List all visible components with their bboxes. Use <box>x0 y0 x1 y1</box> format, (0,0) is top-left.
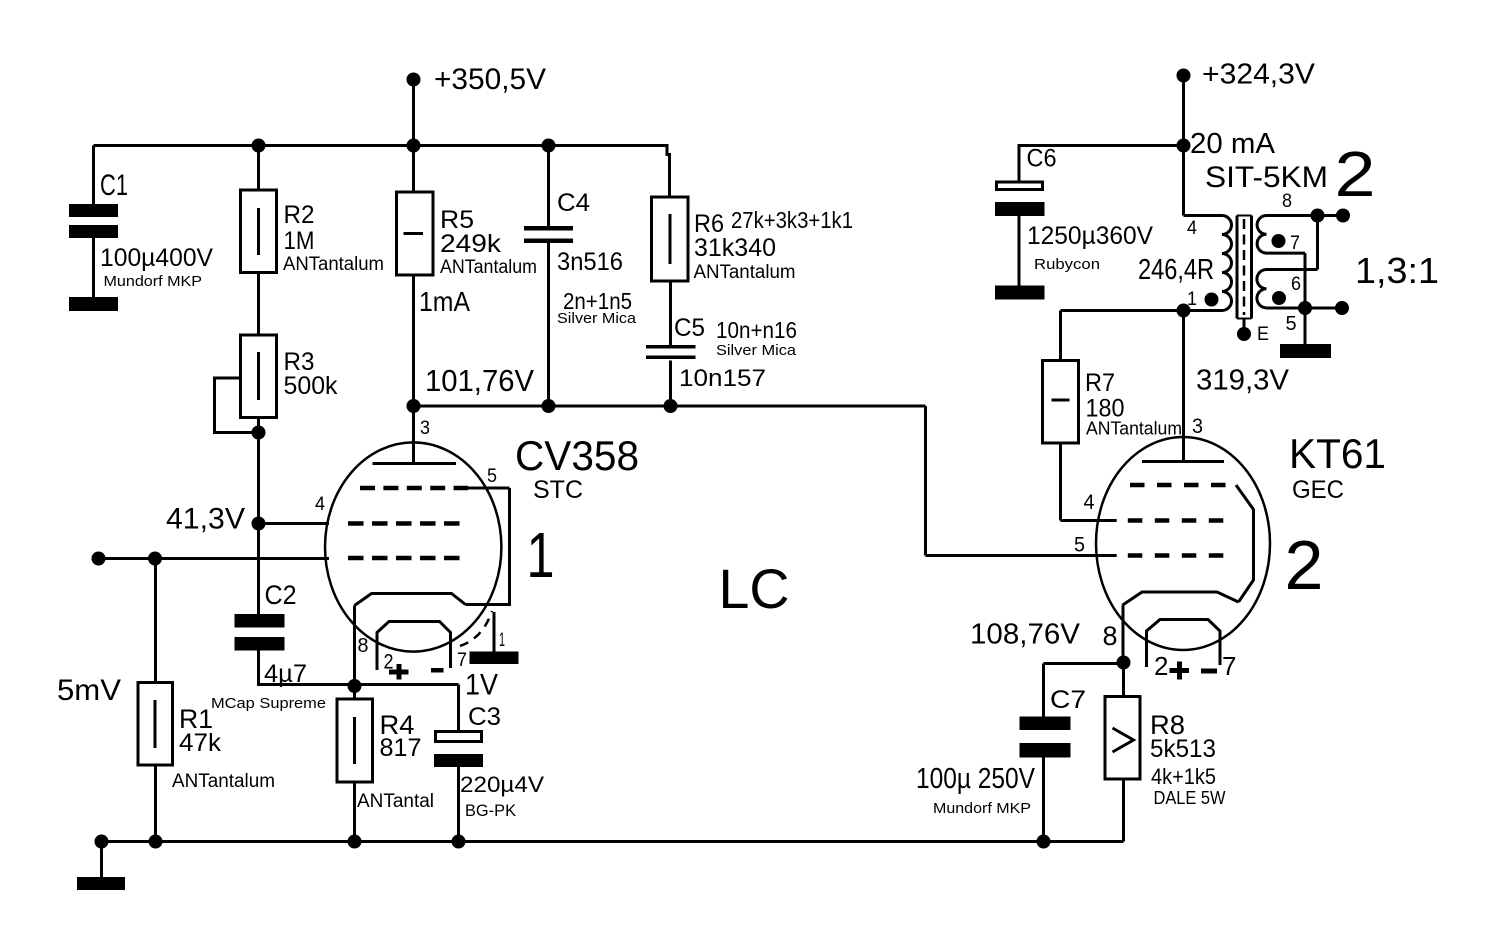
junction dot rail-R5 <box>407 139 421 153</box>
svg-text:Mundorf MKP: Mundorf MKP <box>104 273 203 290</box>
wire screen grid pin4 CV358 <box>259 522 330 525</box>
svg-text:6: 6 <box>1291 274 1301 295</box>
wire pin1 CV358 <box>493 612 496 652</box>
anode plate KT61 <box>1142 460 1224 463</box>
svg-text:LC: LC <box>719 557 790 620</box>
label 20 mA <box>1190 128 1276 160</box>
wire C6 bottom <box>1018 216 1021 286</box>
svg-text:5: 5 <box>487 466 497 487</box>
label R3 <box>284 348 315 376</box>
capacitor C6 <box>995 182 1045 216</box>
phase dot primary <box>1205 293 1219 307</box>
grid g2 dashes KT61 <box>1128 518 1235 523</box>
svg-text:41,3V: 41,3V <box>166 503 245 536</box>
label C4 makeup <box>563 288 632 314</box>
tube CV358 envelope <box>325 442 501 651</box>
svg-text:1250µ360V: 1250µ360V <box>1027 222 1153 250</box>
label pin 7 CV358 <box>457 650 467 671</box>
bracket pin5 CV358 <box>466 488 510 605</box>
core xfmr <box>1237 216 1252 319</box>
svg-text:47k: 47k <box>179 729 222 757</box>
label pin 1 xfmr <box>1187 289 1197 310</box>
junction dot primary-anode <box>1177 304 1191 318</box>
resistor R6 <box>652 197 689 281</box>
wire anode node line <box>414 405 926 408</box>
wire sec1 bottom <box>1267 252 1306 255</box>
label R8 value <box>1150 735 1216 763</box>
svg-text:C4: C4 <box>557 189 590 217</box>
svg-text:C2: C2 <box>265 580 297 610</box>
svg-text:101,76V: 101,76V <box>425 363 534 398</box>
wire ground bus <box>102 840 1124 843</box>
label C7 <box>1050 686 1086 714</box>
svg-text:BG-PK: BG-PK <box>465 801 517 820</box>
label C6 brand <box>1034 256 1100 273</box>
label C2 value <box>264 660 307 688</box>
svg-text:8: 8 <box>1282 191 1292 212</box>
capacitor C7 <box>1020 717 1071 758</box>
wire sec1 top pin8 <box>1267 214 1344 217</box>
label C1 brand <box>104 273 203 290</box>
label +324,3V <box>1202 59 1316 91</box>
capacitor C1 <box>69 204 118 238</box>
wire R8 top <box>1122 663 1125 697</box>
core earth terminal E <box>1237 319 1251 342</box>
wire R2-R3 <box>257 273 260 336</box>
junction dot node-C4 <box>542 399 556 413</box>
wire g3 to bracket CV358 <box>466 487 510 490</box>
resistor R8 <box>1105 697 1140 780</box>
svg-text:4: 4 <box>315 494 325 515</box>
wire R5 bottom <box>412 275 415 406</box>
label pin 2 CV358 <box>384 651 394 674</box>
wire R2 top <box>257 146 260 191</box>
svg-text:C5: C5 <box>674 314 705 342</box>
svg-text:Silver Mica: Silver Mica <box>716 342 797 359</box>
wire R6 top <box>667 146 670 198</box>
junction dot input-R1 <box>148 552 162 566</box>
svg-text:ANTantalum: ANTantalum <box>440 257 537 278</box>
svg-text:CV358: CV358 <box>515 432 639 479</box>
svg-text:1M: 1M <box>284 227 315 255</box>
resistor R3 (pot) <box>241 335 277 418</box>
wire cathode node to C3 <box>355 683 459 686</box>
tube KT61 envelope <box>1096 437 1270 650</box>
svg-text:31k340: 31k340 <box>694 234 776 262</box>
svg-text:246,4R: 246,4R <box>1138 254 1214 286</box>
resistor R4 <box>337 699 373 782</box>
label 1mA <box>419 286 470 317</box>
label 1V <box>465 669 498 702</box>
bracket g3 KT61 <box>1236 485 1254 602</box>
label +350,5V <box>434 63 546 96</box>
svg-text:C7: C7 <box>1050 686 1086 714</box>
label R1 type <box>172 771 275 792</box>
label R6 value <box>694 234 776 262</box>
label tube number 1 <box>527 519 555 591</box>
capacitor C3 <box>434 732 483 768</box>
label pin 5 xfmr <box>1286 313 1297 335</box>
wire sec2 top <box>1267 216 1318 270</box>
label C1 value <box>100 244 213 272</box>
svg-text:ANTantalum: ANTantalum <box>283 254 384 275</box>
label pin 8 CV358 <box>358 635 369 657</box>
svg-text:C3: C3 <box>468 703 501 731</box>
label STC <box>533 476 583 504</box>
resistor R7 <box>1043 361 1079 444</box>
capacitor C4 <box>524 226 573 243</box>
wire C4 bottom <box>547 243 550 406</box>
ground secondary <box>1280 344 1331 358</box>
ground pin1 CV358 <box>470 652 519 665</box>
svg-text:8: 8 <box>358 635 369 657</box>
label C4 <box>557 189 590 217</box>
svg-text:Silver Mica: Silver Mica <box>557 310 637 327</box>
node terminal out B <box>1335 301 1349 315</box>
heater plus KT61 <box>1170 662 1190 680</box>
node +324,3V terminal <box>1177 69 1191 146</box>
heater minus CV358 <box>431 668 444 673</box>
wire C3 top <box>457 685 460 731</box>
label R5 type <box>440 257 537 278</box>
svg-text:2: 2 <box>1335 138 1376 210</box>
wire C4 top <box>547 146 550 227</box>
phase dot sec2 pin6 <box>1272 291 1286 305</box>
svg-text:KT61: KT61 <box>1289 430 1386 477</box>
svg-text:100µ400V: 100µ400V <box>100 244 213 272</box>
label pin 3 KT61 <box>1192 415 1203 438</box>
capacitor C5 <box>646 345 696 359</box>
svg-text:STC: STC <box>533 476 583 504</box>
ground symbol main <box>77 842 125 891</box>
svg-text:R2: R2 <box>284 201 315 229</box>
junction dot 41,3V node <box>252 517 266 531</box>
wire C7 bottom <box>1042 758 1045 842</box>
junction dot gnd R1 <box>149 835 163 849</box>
svg-text:2: 2 <box>1285 526 1324 604</box>
wire R1 bottom <box>154 765 157 842</box>
svg-text:5k513: 5k513 <box>1150 735 1216 763</box>
label pin 7 xfmr <box>1290 233 1300 254</box>
label R8 <box>1150 710 1185 740</box>
svg-text:1: 1 <box>527 519 555 591</box>
junction dot 20mA <box>1177 139 1191 153</box>
label pin 8 xfmr <box>1282 191 1292 212</box>
label R1 value <box>179 729 222 757</box>
resistor R1 <box>138 683 173 766</box>
wire input bus <box>99 557 330 560</box>
label 101,76V <box>425 363 534 398</box>
label C1 <box>100 169 128 202</box>
secondary winding S1 <box>1257 216 1266 254</box>
svg-text:1: 1 <box>499 630 505 651</box>
svg-text:20 mA: 20 mA <box>1190 128 1276 160</box>
label R7 type <box>1086 419 1182 439</box>
wire cathode pin8 KT61 <box>1122 605 1125 662</box>
heater CV358 <box>377 622 451 671</box>
label R5 value <box>440 230 502 258</box>
label C3 value <box>460 772 544 797</box>
wire primary node to R7 <box>1061 311 1184 361</box>
grid g3 dashes KT61 <box>1130 483 1236 488</box>
wire KT61 anode <box>1182 311 1185 462</box>
svg-text:7: 7 <box>457 650 467 671</box>
svg-text:3n516: 3n516 <box>557 248 623 276</box>
grid g1 dashes KT61 <box>1128 553 1233 558</box>
node input terminal <box>92 552 106 566</box>
label R3 value <box>284 372 338 400</box>
svg-text:1V: 1V <box>465 669 498 702</box>
svg-text:10n157: 10n157 <box>679 365 766 392</box>
svg-text:4µ7: 4µ7 <box>264 660 307 688</box>
label pin 4 CV358 <box>315 494 325 515</box>
label R4 <box>380 710 415 740</box>
label R8 brand <box>1154 788 1226 808</box>
ground C6 <box>995 286 1045 300</box>
wire C1 bottom <box>92 238 95 297</box>
svg-text:C1: C1 <box>100 169 128 202</box>
label C3 brand <box>465 801 517 820</box>
junction dot rail-C4 <box>542 139 556 153</box>
svg-text:817: 817 <box>380 734 422 762</box>
wire sec1 to node B riser <box>1304 253 1307 308</box>
label 246,4R <box>1138 254 1214 286</box>
label C5 <box>674 314 705 342</box>
svg-text:8: 8 <box>1103 621 1118 651</box>
label tube number 2 <box>1285 526 1324 604</box>
label ratio 1,3:1 <box>1355 250 1439 291</box>
label pin 3 CV358 <box>420 418 430 439</box>
grid g1 dashes CV358 <box>348 556 468 561</box>
wire LC coupling to KT61 grid <box>926 554 1117 557</box>
svg-text:E: E <box>1257 324 1269 345</box>
grid g3 dashes CV358 <box>360 486 468 491</box>
label C2 <box>265 580 297 610</box>
junction dot cathode node CV358 <box>348 679 362 693</box>
svg-text:100µ 250V: 100µ 250V <box>916 763 1036 795</box>
svg-text:220µ4V: 220µ4V <box>460 772 544 797</box>
label C5 makeup <box>716 317 797 343</box>
junction dot R3 bottom <box>252 426 266 440</box>
wire R7 to g2 KT61 <box>1061 443 1117 521</box>
label R7 <box>1085 369 1115 397</box>
svg-text:+350,5V: +350,5V <box>434 63 546 96</box>
label R6 type <box>694 262 796 283</box>
label C2 brand <box>211 695 326 712</box>
svg-text:3: 3 <box>420 418 430 439</box>
wire R3-grid2 <box>257 418 260 524</box>
label C7 value <box>916 763 1036 795</box>
junction dot sec out A <box>1311 209 1325 223</box>
svg-text:ANTantalum: ANTantalum <box>694 262 796 283</box>
wire LC coupling down <box>924 406 927 556</box>
label pin 7 KT61 <box>1222 651 1236 681</box>
svg-text:Rubycon: Rubycon <box>1034 256 1100 273</box>
junction dot sec out B <box>1298 301 1312 315</box>
svg-text:7: 7 <box>1222 651 1236 681</box>
svg-text:C6: C6 <box>1027 145 1057 173</box>
svg-text:1,3:1: 1,3:1 <box>1355 250 1439 291</box>
label C5 value <box>679 365 766 392</box>
junction dot node-R5 <box>407 399 421 413</box>
wire B+ to primary <box>1184 146 1223 216</box>
wire CV358 anode pin3 <box>412 406 415 464</box>
wire sec2 bottom pin5 <box>1267 307 1343 310</box>
label pin 5 KT61 <box>1074 534 1085 557</box>
label pin 2 KT61 <box>1154 651 1168 681</box>
label LC <box>719 557 790 620</box>
svg-text:R7: R7 <box>1085 369 1115 397</box>
svg-text:4: 4 <box>1187 218 1197 239</box>
label R6 makeup <box>731 207 853 233</box>
label pin 6 xfmr <box>1291 274 1301 295</box>
wire sec gnd <box>1304 308 1307 344</box>
label 41,3V <box>166 503 245 536</box>
wire primary bottom <box>1184 309 1223 312</box>
svg-text:Mundorf MKP: Mundorf MKP <box>933 800 1031 817</box>
junction dot node-C5 <box>664 399 678 413</box>
wire R8 bottom <box>1122 779 1125 842</box>
svg-text:4: 4 <box>1084 491 1095 514</box>
svg-text:ANTantal: ANTantal <box>357 791 434 812</box>
label C6 <box>1027 145 1057 173</box>
label pin 1 CV358 <box>499 630 505 651</box>
node +350,5V supply terminal <box>407 73 421 146</box>
resistor R5 <box>397 192 434 275</box>
primary winding P1 <box>1222 216 1232 311</box>
wire R5 top <box>412 146 415 193</box>
label C6 value <box>1027 222 1153 250</box>
svg-text:249k: 249k <box>440 230 502 258</box>
junction dot gnd R4 <box>348 835 362 849</box>
capacitor C2 <box>235 614 285 651</box>
junction dot gnd input <box>95 835 109 849</box>
label C7 brand <box>933 800 1031 817</box>
svg-text:ANTantalum: ANTantalum <box>1086 419 1182 439</box>
label R4 value <box>380 734 422 762</box>
label 5mV <box>57 674 121 707</box>
label E <box>1257 324 1269 345</box>
secondary winding S2 <box>1257 270 1267 308</box>
svg-text:4k+1k5: 4k+1k5 <box>1151 764 1216 789</box>
heater KT61 <box>1147 620 1221 668</box>
svg-text:GEC: GEC <box>1292 476 1344 504</box>
anode plate CV358 <box>373 462 457 465</box>
wire C3 bottom <box>457 767 460 842</box>
junction dot gnd C7 <box>1037 835 1051 849</box>
svg-text:DALE 5W: DALE 5W <box>1154 788 1226 808</box>
svg-text:MCap Supreme: MCap Supreme <box>211 695 326 712</box>
svg-text:SIT-5KM: SIT-5KM <box>1205 161 1328 194</box>
junction dot rail-R2 <box>252 139 266 153</box>
wire R1 top <box>154 559 157 683</box>
svg-text:5: 5 <box>1286 313 1297 335</box>
dashed shield arc CV358 <box>460 611 492 646</box>
label R2 type <box>283 254 384 275</box>
label C5 brand <box>716 342 797 359</box>
label R2 value <box>284 227 315 255</box>
label pin 8 KT61 <box>1103 621 1118 651</box>
label C4 value <box>557 248 623 276</box>
svg-text:319,3V: 319,3V <box>1196 365 1290 397</box>
wire R4 bottom <box>353 782 356 842</box>
grid g2 dashes CV358 <box>348 521 468 526</box>
label KT61 <box>1289 430 1386 477</box>
label CV358 <box>515 432 639 479</box>
label C3 <box>468 703 501 731</box>
cathode CV358 <box>355 594 466 606</box>
label R6 <box>694 210 724 238</box>
resistor R2 <box>241 190 277 273</box>
node terminal out A <box>1336 209 1350 223</box>
label 108,76V <box>970 619 1081 651</box>
wire 41,3V-C2 <box>257 524 260 615</box>
label R7 value <box>1086 395 1125 423</box>
label pin 4 KT61 <box>1084 491 1095 514</box>
svg-text:3: 3 <box>1192 415 1203 438</box>
svg-text:500k: 500k <box>284 372 338 400</box>
svg-text:5: 5 <box>1074 534 1085 557</box>
label R8 makeup <box>1151 764 1216 789</box>
heater plus CV358 <box>389 664 409 680</box>
wire R3 wiper hook <box>215 378 259 433</box>
label xfmr number 2 <box>1335 138 1376 210</box>
wire cathode pin8 CV358 <box>353 606 356 687</box>
wire C5 bottom <box>669 361 672 407</box>
phase dot sec1 pin7 <box>1272 234 1286 248</box>
label pin 4 xfmr <box>1187 218 1197 239</box>
label GEC <box>1292 476 1344 504</box>
svg-text:10n+n16: 10n+n16 <box>716 317 797 343</box>
wire R4 top <box>353 686 356 699</box>
label C4 brand <box>557 310 637 327</box>
svg-text:27k+3k3+1k1: 27k+3k3+1k1 <box>731 207 853 233</box>
svg-text:2: 2 <box>1154 651 1168 681</box>
wire R6-C5 <box>669 281 672 345</box>
ground C1 <box>69 297 118 311</box>
label R2 <box>284 201 315 229</box>
label R5 <box>440 206 474 234</box>
svg-text:1mA: 1mA <box>419 286 470 317</box>
label SIT-5KM <box>1205 161 1328 194</box>
svg-text:5mV: 5mV <box>57 674 121 707</box>
svg-text:7: 7 <box>1290 233 1300 254</box>
svg-text:108,76V: 108,76V <box>970 619 1081 651</box>
label R1 <box>179 704 213 734</box>
svg-text:+324,3V: +324,3V <box>1202 59 1316 91</box>
heater minus KT61 <box>1201 669 1217 674</box>
svg-text:ANTantalum: ANTantalum <box>172 771 275 792</box>
wire top B+ rail <box>94 144 669 147</box>
wire cathode node to C7 <box>1044 664 1124 717</box>
label R4 type <box>357 791 434 812</box>
wire C6 branch <box>1019 144 1184 181</box>
label pin 5 CV358 <box>487 466 497 487</box>
cathode KT61 <box>1122 592 1238 605</box>
wire C2 bottom <box>257 651 355 685</box>
label 319,3V <box>1196 365 1290 397</box>
junction dot gnd C3 <box>452 835 466 849</box>
junction dot KT61 cathode node <box>1117 656 1131 670</box>
wire C1 top <box>92 146 95 205</box>
